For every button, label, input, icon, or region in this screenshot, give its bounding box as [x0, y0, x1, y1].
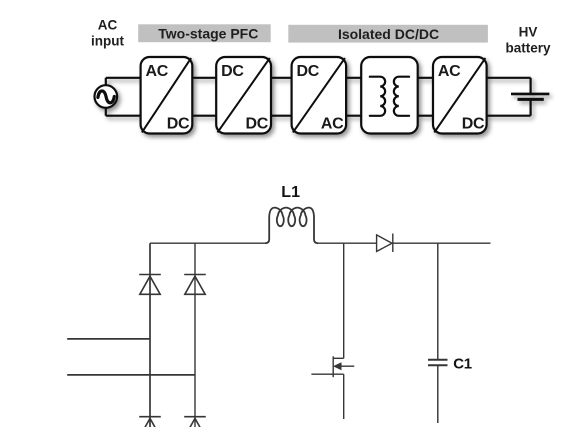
svg-text:DC: DC — [297, 63, 320, 80]
svg-text:AC: AC — [321, 116, 344, 133]
svg-text:AC: AC — [438, 63, 461, 80]
svg-text:C1: C1 — [453, 356, 472, 373]
svg-text:AC: AC — [146, 63, 169, 80]
svg-text:HV: HV — [519, 25, 538, 40]
svg-text:L1: L1 — [281, 184, 300, 201]
svg-text:DC: DC — [221, 63, 244, 80]
svg-text:AC: AC — [98, 18, 118, 33]
svg-text:DC: DC — [245, 116, 268, 133]
svg-text:input: input — [91, 33, 124, 48]
svg-text:DC: DC — [462, 116, 485, 133]
svg-text:DC: DC — [167, 116, 190, 133]
svg-text:battery: battery — [505, 41, 551, 56]
svg-text:Two-stage PFC: Two-stage PFC — [158, 26, 258, 42]
svg-text:Isolated DC/DC: Isolated DC/DC — [338, 26, 439, 42]
